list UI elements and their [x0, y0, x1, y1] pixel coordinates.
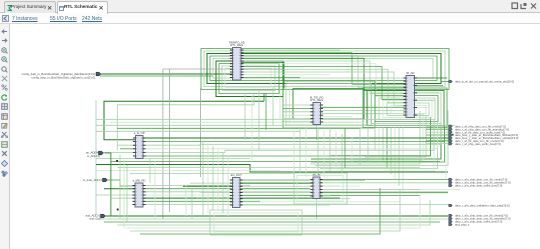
svg-text:dato_a_af_dor_on_parcial_dot_s: dato_a_af_dor_on_parcial_dot_suma_dor[15…	[455, 80, 514, 84]
wire	[95, 100, 97, 215]
wire	[321, 110, 407, 112]
instance U3 a_MD_reg	[132, 179, 145, 207]
wire	[394, 128, 396, 181]
wire loop	[293, 89, 364, 120]
wire loop	[216, 61, 283, 97]
wire	[105, 215, 449, 217]
wire	[143, 191, 448, 193]
output port dato_r_afu_chip_dato_con_fib_chadio	[449, 214, 453, 217]
wire	[321, 106, 407, 108]
svg-text:alu_fw: alu_fw	[312, 173, 321, 177]
wire loop	[219, 64, 279, 94]
wire	[143, 124, 441, 146]
wire	[320, 195, 330, 197]
wire	[240, 201, 400, 203]
wire	[100, 73, 233, 75]
wire loop	[207, 54, 441, 84]
wire	[123, 160, 125, 228]
output port aud_play_y	[449, 223, 453, 226]
svg-text:aud_CLK: aud_CLK	[89, 217, 101, 221]
wire	[311, 128, 441, 160]
output port dato_r_afu_chip_dato_suffix_bow	[449, 184, 453, 187]
wire loop	[363, 88, 447, 128]
wire	[143, 122, 438, 149]
wire	[212, 146, 214, 210]
svg-text:RTL_REG: RTL_REG	[230, 43, 243, 47]
wire	[402, 128, 404, 193]
wire	[119, 155, 121, 219]
wire	[207, 143, 209, 213]
wire	[104, 101, 264, 139]
wire	[241, 64, 406, 97]
wire	[320, 185, 360, 187]
wire loop	[213, 59, 433, 79]
output port dato_r_af_fib_dato_con_fib_medio	[449, 140, 453, 143]
wire loop	[297, 176, 343, 202]
wire loop	[290, 86, 369, 122]
output port dato_r_afu_dato_validation_dato_play	[449, 204, 453, 207]
wire loop	[204, 51, 445, 87]
wire loop	[375, 96, 438, 122]
wire	[169, 69, 171, 212]
wire	[240, 195, 420, 197]
wire	[191, 188, 193, 219]
wire	[120, 148, 136, 150]
output port dato_r_af_chip_dato_suffix_bow	[449, 142, 453, 145]
wire	[415, 77, 448, 79]
wire	[382, 128, 384, 163]
wire loop	[210, 56, 437, 81]
svg-text:w_AD[2:0]: w_AD[2:0]	[87, 154, 100, 158]
svg-text:w_dato_AD[2:0]: w_dato_AD[2:0]	[83, 178, 103, 182]
wire	[240, 198, 350, 200]
wire loop	[294, 173, 347, 204]
wire	[143, 185, 250, 187]
wire	[321, 113, 407, 115]
wire	[241, 49, 340, 51]
wire	[96, 124, 455, 126]
wire	[299, 128, 301, 173]
wire	[143, 126, 445, 142]
wire	[415, 84, 444, 86]
wire	[426, 131, 449, 133]
instance U5 M_TIE_reg	[310, 95, 324, 124]
wire	[390, 128, 392, 175]
wire	[227, 155, 229, 216]
wire	[240, 182, 313, 184]
wire	[163, 68, 283, 70]
svg-text:dato_r_afu_chip_dato_suffix_bo: dato_r_afu_chip_dato_suffix_bow[7:0]	[455, 184, 502, 188]
wire	[329, 128, 331, 171]
wire	[323, 131, 325, 177]
wire	[143, 188, 310, 190]
wire loop	[283, 81, 375, 128]
wire	[350, 113, 423, 161]
output port dato_r_afu_chip_dato_con_fib_asandbo	[449, 181, 453, 184]
wire	[183, 185, 233, 187]
wire	[367, 128, 369, 162]
wire	[283, 104, 313, 106]
svg-text:aud_play_y: aud_play_y	[455, 223, 470, 227]
wire	[96, 118, 432, 120]
wire	[100, 75, 213, 77]
wire	[445, 146, 447, 178]
wire	[283, 114, 313, 116]
wire	[426, 143, 449, 145]
output port dato_r_af_fib_dato_con_outfib_bow	[449, 131, 453, 134]
wire	[241, 62, 284, 88]
wire	[378, 128, 380, 157]
wire	[272, 87, 274, 125]
wire loop	[214, 213, 298, 232]
wire	[96, 194, 135, 196]
wire	[293, 131, 295, 173]
wire	[441, 81, 449, 83]
wire	[200, 88, 202, 177]
wire	[201, 192, 233, 194]
junction	[452, 134, 454, 136]
wire	[320, 188, 420, 190]
wire loop	[367, 91, 444, 126]
wire	[104, 221, 440, 223]
wire	[149, 158, 151, 183]
wire	[316, 199, 318, 220]
wire	[117, 144, 135, 146]
wire	[359, 128, 361, 165]
wire	[143, 200, 260, 202]
wire	[140, 188, 380, 234]
wire	[117, 94, 254, 151]
wire	[426, 140, 449, 142]
wire	[143, 204, 452, 206]
left toolbar	[0, 24, 10, 249]
svg-text:a_MD_RD: a_MD_RD	[132, 179, 145, 183]
wire	[258, 90, 260, 150]
wire	[125, 195, 420, 228]
wire	[310, 111, 420, 164]
output port dato_fuse_y_dato_ar_BusVideoDato_opDato	[449, 137, 453, 140]
wire	[320, 122, 438, 169]
output port dato_r_af_chip_dato_con_fib_medio	[449, 125, 453, 128]
wire loop	[383, 101, 432, 118]
svg-text:RTL_REG: RTL_REG	[310, 98, 323, 102]
wire	[241, 58, 406, 90]
wire	[279, 84, 281, 120]
wire	[415, 114, 425, 116]
wire	[96, 218, 449, 220]
input port aud_AD	[101, 214, 106, 218]
wire	[240, 192, 380, 194]
wire	[320, 192, 448, 194]
wire	[251, 95, 253, 160]
output port dato_fuse_y_dato_ar_BusVideoDato_fibDato	[449, 134, 453, 137]
wire	[111, 161, 440, 163]
wire loop	[286, 84, 372, 126]
wire	[335, 131, 337, 168]
instance U1 TIEMPO_AD_reg	[229, 40, 245, 80]
wire	[143, 137, 449, 139]
wire	[265, 93, 267, 130]
output port dato_r_afu_chip_dato_suffix_bow	[449, 220, 453, 223]
wire	[241, 69, 406, 102]
input port w_dato_AD	[103, 178, 108, 182]
wire loop	[391, 106, 426, 114]
wire	[126, 165, 128, 222]
wire	[143, 120, 434, 153]
tab bar	[0, 0, 540, 13]
svg-text:dato_r_afu_dato_validation_dat: dato_r_afu_dato_validation_dato_play[15:…	[455, 204, 510, 208]
wire	[325, 120, 434, 172]
wire	[96, 170, 280, 172]
output port dato_r_afu_chip_dato_con_fib_medio	[449, 178, 453, 181]
wire	[283, 111, 313, 113]
wire	[320, 182, 448, 184]
wire	[107, 180, 136, 186]
wire	[351, 137, 353, 170]
wire	[426, 134, 449, 136]
wire	[426, 137, 449, 139]
wire	[344, 128, 346, 168]
wire	[143, 197, 340, 199]
wire	[330, 118, 431, 156]
wire	[185, 185, 187, 216]
wire	[241, 61, 406, 93]
wire loop	[387, 103, 429, 116]
wire	[386, 128, 388, 169]
wire	[316, 125, 318, 141]
wire	[283, 107, 313, 109]
instance U6 IR_reg	[403, 71, 417, 117]
wire	[111, 197, 135, 199]
wire	[415, 92, 440, 94]
wire	[130, 190, 400, 231]
svg-text:a_la_OP: a_la_OP	[134, 131, 145, 135]
wire loop	[379, 98, 435, 120]
wire	[240, 179, 365, 181]
output port dato_a_af_dor_on_parcial_dot_suma_dor	[449, 80, 453, 83]
wire loop	[225, 69, 271, 88]
wire	[143, 118, 431, 157]
wire	[202, 140, 204, 215]
wire	[130, 173, 294, 175]
wire	[104, 188, 135, 190]
wire	[105, 153, 111, 216]
wire loop	[201, 49, 449, 90]
svg-text:alu_OUT: alu_OUT	[231, 173, 242, 177]
wire	[241, 74, 330, 76]
wire	[222, 152, 224, 213]
wire	[154, 161, 156, 219]
wire loop	[222, 66, 275, 91]
svg-text:IR_AD: IR_AD	[406, 71, 414, 75]
wire	[241, 67, 406, 100]
wire	[117, 167, 420, 169]
wire	[415, 99, 436, 101]
svg-text:config_dato_in_BusVideoDato_cf: config_dato_in_BusVideoDato_cfgDatoIn_ou…	[31, 75, 95, 79]
instance U7 alu_reg	[310, 173, 322, 199]
wire	[398, 128, 400, 187]
wire loop	[371, 93, 441, 124]
wire	[96, 158, 250, 160]
wire	[244, 93, 246, 140]
wire	[196, 198, 233, 200]
input port an_AD	[99, 151, 104, 155]
wire	[96, 130, 300, 132]
wire	[283, 121, 313, 123]
wire	[263, 94, 265, 102]
wire	[240, 185, 340, 187]
wire	[283, 118, 313, 120]
wire loop	[210, 210, 302, 235]
wire	[426, 125, 449, 127]
wire	[117, 200, 430, 225]
wire	[241, 72, 406, 106]
wire	[217, 149, 219, 210]
svg-text:dato_r_af_chip_dato_suffix_bow: dato_r_af_chip_dato_suffix_bow[7:0]	[455, 142, 501, 146]
wire	[241, 77, 300, 79]
wire	[96, 165, 448, 173]
wire	[311, 126, 445, 163]
wire	[426, 128, 449, 130]
wire	[321, 116, 353, 118]
instance U2 a_la_Op_reg	[133, 131, 146, 158]
wire	[415, 107, 429, 109]
wire	[320, 179, 452, 181]
wire	[315, 111, 448, 166]
wire	[143, 194, 340, 196]
junction	[116, 160, 118, 162]
wire	[241, 56, 406, 88]
wire	[110, 121, 364, 123]
junction	[117, 209, 119, 211]
wire	[162, 69, 164, 219]
links row	[0, 13, 540, 24]
wire	[240, 188, 460, 190]
wire	[241, 53, 406, 84]
input port config_dato_in	[96, 72, 101, 76]
wire	[240, 204, 330, 206]
wire	[374, 128, 376, 151]
output port dato_r_afu_chip_dato_con_fib_asandbo	[449, 217, 453, 220]
wire	[317, 128, 319, 175]
wire	[190, 182, 233, 184]
wire	[305, 125, 307, 177]
wire	[341, 134, 343, 173]
wire	[365, 115, 426, 157]
wire	[96, 151, 136, 153]
wire	[117, 127, 360, 129]
output port dato_r_af_chip_dato_con_fib_asandbo	[449, 128, 453, 131]
instance U4 alu_Out_reg	[230, 173, 243, 207]
